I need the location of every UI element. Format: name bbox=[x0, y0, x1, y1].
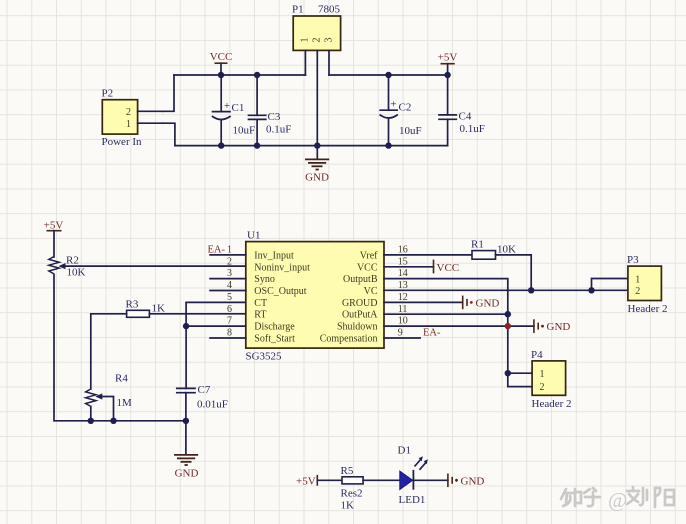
U1 pin 3 Syno bbox=[210, 268, 275, 285]
svg-text:VC: VC bbox=[364, 286, 378, 297]
svg-text:R5: R5 bbox=[341, 465, 354, 477]
svg-text:EA-: EA- bbox=[423, 328, 441, 339]
svg-text:EA-: EA- bbox=[208, 245, 226, 256]
svg-text:10K: 10K bbox=[67, 267, 86, 279]
svg-text:3: 3 bbox=[227, 268, 232, 279]
svg-text:Noninv_input: Noninv_input bbox=[254, 262, 310, 273]
svg-text:1M: 1M bbox=[117, 397, 133, 409]
junction bbox=[588, 287, 594, 293]
wire 7805 pin3 to +5V rail bbox=[328, 50, 330, 75]
svg-text:10: 10 bbox=[398, 316, 408, 327]
connector P3 bbox=[627, 254, 668, 315]
svg-text:RT: RT bbox=[254, 310, 266, 321]
LED D1 bbox=[398, 445, 428, 507]
svg-text:P1: P1 bbox=[292, 4, 304, 16]
wire R4 wiper down bbox=[101, 397, 113, 421]
svg-text:16: 16 bbox=[398, 245, 408, 256]
U1 pin 16 Vref bbox=[360, 245, 408, 262]
svg-text:9: 9 bbox=[398, 328, 403, 339]
junction bbox=[385, 72, 391, 78]
svg-text:+: + bbox=[224, 100, 230, 112]
svg-text:Inv_Input: Inv_Input bbox=[254, 250, 294, 261]
junction bbox=[110, 418, 116, 424]
U1 pin 4 OSC_Output bbox=[210, 280, 307, 297]
U1 pin 14 OutputB bbox=[343, 268, 408, 285]
power port VCC bbox=[210, 51, 233, 75]
svg-text:D1: D1 bbox=[398, 445, 411, 457]
wire D1 to GND bbox=[413, 479, 448, 481]
potentiometer R4 bbox=[86, 373, 132, 410]
svg-text:0.1uF: 0.1uF bbox=[460, 123, 485, 135]
svg-text:C4: C4 bbox=[459, 111, 472, 123]
U1 pin 12 GROUD bbox=[342, 292, 408, 309]
wire U1 pin16 to R1 bbox=[384, 254, 472, 256]
svg-text:Shuldown: Shuldown bbox=[337, 322, 378, 333]
svg-text:OutPutA: OutPutA bbox=[342, 310, 378, 321]
resistor R1 bbox=[471, 239, 516, 260]
svg-text:VCC: VCC bbox=[210, 51, 233, 63]
junction bbox=[254, 72, 260, 78]
svg-text:7: 7 bbox=[227, 316, 232, 327]
wire R1 to pin13 net bbox=[496, 255, 532, 290]
svg-text:GND: GND bbox=[461, 476, 485, 488]
svg-text:5: 5 bbox=[227, 292, 232, 303]
svg-text:0.01uF: 0.01uF bbox=[197, 399, 228, 411]
U1 pin 8 Soft_Start bbox=[210, 328, 295, 345]
wire +5V rail bbox=[329, 74, 448, 76]
svg-text:14: 14 bbox=[398, 268, 408, 279]
wire P2 pin2 to VCC rail bbox=[163, 75, 174, 111]
svg-text:10uF: 10uF bbox=[233, 125, 256, 137]
svg-text:10K: 10K bbox=[497, 244, 516, 256]
svg-text:+5V: +5V bbox=[438, 52, 458, 64]
capacitor C1 bbox=[213, 75, 256, 146]
svg-text:P4: P4 bbox=[531, 349, 543, 361]
resistor R5 bbox=[341, 465, 364, 512]
U1 pin 5 CT bbox=[227, 292, 267, 309]
junction bbox=[218, 142, 224, 148]
U1 pin 6 RT bbox=[227, 304, 266, 321]
svg-text:Header 2: Header 2 bbox=[628, 303, 668, 315]
svg-text:Discharge: Discharge bbox=[254, 322, 295, 333]
svg-text:+5V: +5V bbox=[44, 220, 64, 232]
ground GND (7805) bbox=[305, 159, 329, 183]
svg-text:0.1uF: 0.1uF bbox=[266, 124, 291, 136]
svg-text:1K: 1K bbox=[152, 303, 166, 315]
junction bbox=[444, 72, 450, 78]
ground GND (D1) bbox=[448, 474, 484, 488]
wire +5V to R2 bbox=[53, 231, 55, 257]
capacitor C4 bbox=[439, 75, 485, 146]
svg-text:1K: 1K bbox=[341, 500, 355, 512]
capacitor C7 bbox=[177, 384, 228, 421]
svg-text:1: 1 bbox=[540, 369, 545, 380]
svg-text:R3: R3 bbox=[126, 299, 139, 311]
junction bbox=[183, 323, 189, 329]
capacitor C3 bbox=[249, 75, 292, 146]
junction bbox=[88, 418, 94, 424]
ground GND (C7) bbox=[174, 455, 198, 480]
power port +5V (R2 branch) bbox=[44, 220, 64, 232]
svg-text:R2: R2 bbox=[66, 255, 79, 267]
svg-text:11: 11 bbox=[398, 304, 408, 315]
potentiometer R2 bbox=[49, 255, 86, 279]
svg-text:+5V: +5V bbox=[296, 476, 316, 488]
wire ground rail bbox=[175, 145, 448, 147]
svg-text:Power In: Power In bbox=[102, 136, 143, 148]
svg-text:12: 12 bbox=[398, 292, 408, 303]
wire R4 top to R3 bbox=[91, 314, 127, 389]
IC U1 SG3525 body bbox=[246, 242, 384, 349]
svg-text:GROUD: GROUD bbox=[342, 298, 378, 309]
regulator P1 7805 bbox=[292, 4, 341, 51]
svg-text:1: 1 bbox=[227, 245, 232, 256]
U1 pin 11 OutPutA bbox=[342, 304, 408, 321]
wire VCC rail bbox=[174, 74, 305, 76]
svg-text:2: 2 bbox=[126, 107, 131, 118]
svg-text:3: 3 bbox=[323, 38, 334, 43]
junction bbox=[505, 311, 511, 317]
wire +5V to R5 bbox=[317, 479, 342, 481]
svg-text:GND: GND bbox=[175, 468, 199, 480]
power port +5V (LED branch) bbox=[296, 475, 317, 488]
ground GND (pin10) bbox=[534, 319, 570, 333]
svg-text:Compensation: Compensation bbox=[320, 334, 378, 345]
wire 7805 pin1 to VCC rail bbox=[304, 50, 306, 75]
svg-text:Vref: Vref bbox=[360, 250, 378, 261]
U1 pin 2 Noninv_input bbox=[227, 256, 310, 273]
junction bbox=[505, 370, 511, 376]
svg-text:GND: GND bbox=[476, 298, 500, 310]
junction bbox=[218, 72, 224, 78]
wire R3 to U1 pin 6 bbox=[149, 313, 245, 315]
wire P2 pin1 to ground rail bbox=[163, 123, 175, 145]
ground GND (pin12) bbox=[384, 296, 499, 310]
junction bbox=[254, 142, 260, 148]
svg-text:8: 8 bbox=[227, 328, 232, 339]
wire branch to P4 pin1 bbox=[508, 372, 532, 374]
wire R4 bottom bbox=[90, 407, 92, 421]
wire R2 wiper to U1 pin 2 bbox=[65, 265, 246, 267]
svg-text:C3: C3 bbox=[268, 111, 281, 123]
svg-text:1: 1 bbox=[635, 275, 640, 286]
U1 pin 15 VCC bbox=[357, 256, 408, 273]
U1 pin 9 Compensation bbox=[320, 328, 420, 345]
wire 7805 pin2 to ground bbox=[316, 50, 318, 159]
svg-text:Header 2: Header 2 bbox=[532, 398, 572, 410]
U1 pin 7 Discharge bbox=[227, 316, 295, 333]
svg-text:C2: C2 bbox=[399, 102, 412, 114]
svg-text:2: 2 bbox=[312, 38, 323, 43]
svg-text:OutputB: OutputB bbox=[343, 274, 378, 285]
capacitor C2 bbox=[380, 75, 421, 146]
U1 pin 1 Inv_Input bbox=[210, 245, 294, 262]
wire U1 pin7 bbox=[186, 325, 246, 327]
junction (red manual) bbox=[505, 323, 511, 329]
svg-text:CT: CT bbox=[254, 298, 267, 309]
svg-text:4: 4 bbox=[227, 280, 232, 291]
power port VCC (pin15) bbox=[384, 260, 459, 274]
wire C7 to ground bbox=[185, 421, 187, 454]
svg-text:2: 2 bbox=[540, 382, 545, 393]
svg-text:2: 2 bbox=[635, 286, 640, 297]
svg-text:6: 6 bbox=[227, 304, 232, 315]
svg-text:LED1: LED1 bbox=[399, 494, 426, 506]
wire U1 pin11 bbox=[384, 313, 508, 315]
svg-text:P3: P3 bbox=[627, 254, 639, 266]
svg-text:Soft_Start: Soft_Start bbox=[254, 334, 295, 345]
svg-text:R1: R1 bbox=[471, 239, 484, 251]
U1 pin 10 Shuldown bbox=[337, 316, 408, 333]
wire branch to P3 pin1 bbox=[592, 279, 628, 291]
svg-text:1: 1 bbox=[300, 38, 311, 43]
wire R5 to D1 bbox=[363, 479, 400, 481]
svg-text:VCC: VCC bbox=[357, 262, 378, 273]
connector P2 bbox=[102, 88, 163, 149]
svg-text:C7: C7 bbox=[198, 384, 211, 396]
junction bbox=[385, 142, 391, 148]
svg-text:SG3525: SG3525 bbox=[246, 351, 283, 363]
svg-text:7805: 7805 bbox=[318, 4, 341, 16]
svg-text:Syno: Syno bbox=[254, 274, 275, 285]
svg-text:10uF: 10uF bbox=[399, 125, 422, 137]
svg-text:OSC_Output: OSC_Output bbox=[254, 286, 306, 297]
power port +5V bbox=[438, 52, 458, 76]
junction bbox=[183, 418, 189, 424]
junction bbox=[528, 287, 534, 293]
svg-text:2: 2 bbox=[227, 256, 232, 267]
svg-text:+: + bbox=[390, 98, 396, 110]
svg-text:P2: P2 bbox=[102, 88, 114, 100]
wire U1 pin5 to C7 bbox=[186, 302, 246, 388]
svg-text:U1: U1 bbox=[247, 230, 260, 242]
watermark 知乎 @刘阳 bbox=[561, 487, 674, 512]
svg-text:1: 1 bbox=[126, 119, 131, 130]
svg-text:15: 15 bbox=[398, 256, 408, 267]
svg-text:Res2: Res2 bbox=[341, 488, 363, 500]
svg-text:@: @ bbox=[608, 488, 627, 512]
wire U1 pin10 to GND bbox=[384, 325, 534, 327]
svg-text:R4: R4 bbox=[115, 373, 128, 385]
svg-text:VCC: VCC bbox=[437, 262, 460, 274]
svg-text:GND: GND bbox=[305, 172, 329, 184]
U1 pin 13 VC bbox=[364, 280, 408, 297]
svg-text:C1: C1 bbox=[232, 102, 245, 114]
wire U1 pin13 to P3 bbox=[384, 289, 628, 291]
wire U1 pin14 down to P4 bbox=[384, 279, 532, 387]
wire R2 bottom to ground rail bbox=[54, 275, 186, 421]
resistor R3 bbox=[126, 299, 166, 318]
junction bbox=[314, 142, 320, 148]
connector P4 bbox=[531, 349, 572, 410]
svg-text:GND: GND bbox=[547, 321, 571, 333]
